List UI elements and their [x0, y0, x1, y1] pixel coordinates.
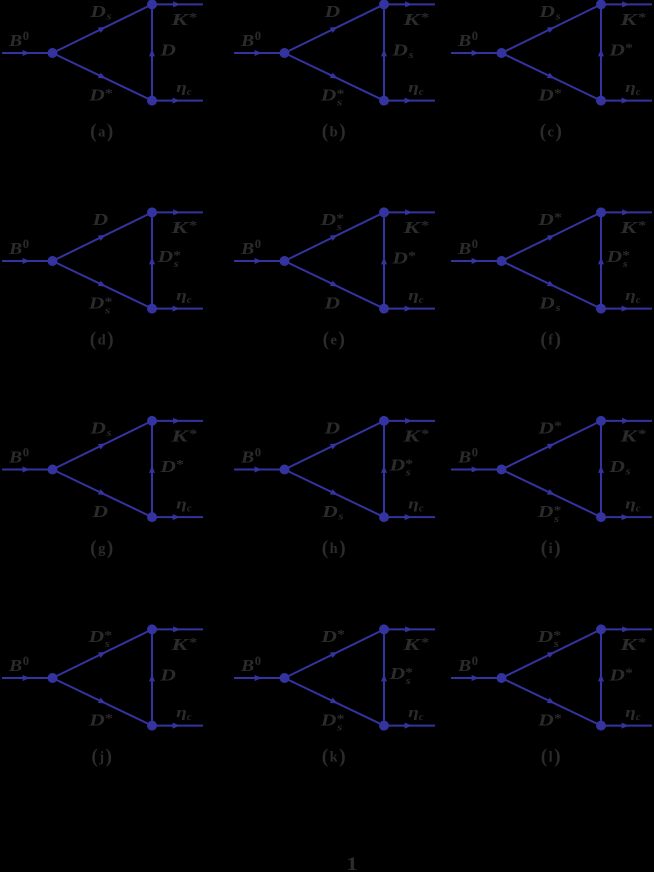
svg-text:s: s: [553, 514, 559, 525]
outgoing K* line (l): [601, 628, 652, 630]
svg-text:*: *: [176, 458, 184, 472]
left vertex (a): [48, 48, 58, 58]
top vertex (j): [147, 624, 157, 634]
top vertex (b): [379, 0, 389, 9]
top vertex (f): [596, 207, 606, 217]
incoming B0 line (a): [2, 52, 53, 54]
svg-text:D: D: [388, 664, 405, 683]
svg-text:K: K: [170, 218, 190, 237]
top vertex (l): [596, 624, 606, 634]
arrow on outgoing K* line (l): [622, 626, 629, 632]
svg-text:*: *: [638, 636, 646, 650]
svg-text:B: B: [240, 31, 254, 50]
arrow on right internal line (k): [381, 674, 387, 681]
svg-text:D: D: [319, 210, 336, 229]
svg-text:c: c: [636, 87, 641, 98]
svg-text:D: D: [320, 627, 337, 646]
svg-text:s: s: [624, 467, 630, 478]
arrow on outgoing K* line (k): [405, 626, 412, 632]
bottom vertex (j): [147, 721, 157, 731]
svg-text:*: *: [554, 86, 562, 100]
bottom vertex (g): [147, 512, 157, 522]
arrow on bottom internal line (g): [98, 489, 106, 495]
top internal line D* (i): [502, 421, 602, 470]
svg-text:0: 0: [472, 29, 478, 43]
diagram (d): [2, 207, 203, 350]
svg-text:(g): (g): [90, 538, 113, 559]
svg-text:η: η: [176, 705, 187, 721]
svg-text:B: B: [457, 31, 471, 50]
svg-text:s: s: [622, 259, 628, 270]
svg-text:η: η: [625, 288, 636, 304]
svg-text:c: c: [187, 712, 192, 723]
svg-text:D: D: [537, 502, 554, 521]
svg-text:c: c: [636, 295, 641, 306]
diagram (k): [234, 624, 435, 767]
svg-text:D: D: [91, 210, 108, 229]
svg-text:0: 0: [472, 654, 478, 668]
svg-text:η: η: [176, 80, 187, 96]
arrow on outgoing eta_c line (b): [405, 98, 412, 104]
svg-text:B: B: [240, 656, 254, 675]
outgoing eta_c line (g): [152, 516, 203, 518]
svg-text:D: D: [391, 248, 408, 267]
svg-text:(h): (h): [322, 538, 346, 559]
arrow on right internal line (g): [149, 466, 155, 473]
left vertex (d): [48, 256, 58, 266]
svg-text:D: D: [91, 502, 108, 521]
svg-text:(i): (i): [541, 538, 561, 559]
arrow on bottom internal line (e): [330, 281, 338, 287]
outgoing eta_c line (e): [384, 308, 435, 310]
incoming B0 line (d): [2, 260, 53, 262]
svg-text:D: D: [159, 666, 176, 685]
bottom internal line D* (l): [502, 678, 602, 726]
incoming B0 line (j): [2, 677, 53, 679]
top internal line D_s (g): [53, 421, 153, 470]
arrow on right internal line (b): [381, 49, 387, 56]
incoming B0 line (i): [451, 469, 502, 471]
outgoing eta_c line (b): [384, 100, 435, 102]
arrow on right internal line (d): [149, 257, 155, 264]
svg-text:D: D: [89, 419, 106, 438]
svg-text:*: *: [421, 427, 429, 441]
svg-text:K: K: [402, 427, 422, 446]
bottom vertex (e): [379, 304, 389, 314]
outgoing K* line (b): [384, 3, 435, 5]
arrow on right internal line (a): [149, 49, 155, 56]
arrow on bottom internal line (l): [547, 698, 555, 704]
svg-text:D: D: [321, 502, 338, 521]
svg-text:0: 0: [255, 29, 261, 43]
arrow on right internal line (j): [149, 674, 155, 681]
arrow on outgoing K* line (d): [173, 209, 180, 215]
arrow on outgoing K* line (f): [622, 209, 629, 215]
svg-text:0: 0: [255, 446, 261, 460]
svg-text:η: η: [408, 80, 419, 96]
arrow on bottom internal line (f): [547, 281, 555, 287]
arrow on incoming B0 line (e): [255, 258, 262, 264]
svg-text:D: D: [537, 419, 554, 438]
svg-text:K: K: [619, 218, 639, 237]
svg-text:*: *: [554, 711, 562, 725]
bottom vertex (f): [596, 304, 606, 314]
svg-text:s: s: [336, 723, 342, 734]
diagram (c): [451, 0, 652, 143]
svg-text:0: 0: [255, 237, 261, 251]
right internal line D_s* (k): [383, 629, 385, 725]
svg-text:η: η: [625, 80, 636, 96]
bottom vertex (b): [379, 96, 389, 106]
svg-text:(f): (f): [540, 330, 561, 351]
svg-text:*: *: [554, 211, 562, 225]
svg-text:*: *: [189, 219, 197, 233]
svg-text:K: K: [170, 635, 190, 654]
svg-text:D: D: [605, 247, 622, 266]
outgoing eta_c line (a): [152, 100, 203, 102]
arrow on incoming B0 line (i): [472, 467, 479, 473]
bottom internal line D (e): [285, 261, 385, 309]
svg-text:(j): (j): [91, 747, 112, 768]
left vertex (l): [497, 673, 507, 683]
arrow on top internal line (i): [547, 443, 555, 449]
svg-text:*: *: [638, 219, 646, 233]
arrow on bottom internal line (b): [330, 73, 338, 79]
svg-text:D: D: [320, 711, 337, 730]
arrow on outgoing eta_c line (d): [173, 306, 180, 312]
bottom internal line D* (a): [53, 53, 153, 101]
svg-text:K: K: [619, 635, 639, 654]
incoming B0 line (g): [2, 469, 53, 471]
svg-text:B: B: [240, 239, 254, 258]
bottom internal line D_s (h): [285, 470, 385, 518]
svg-text:s: s: [336, 222, 342, 233]
top vertex (i): [596, 416, 606, 426]
arrow on incoming B0 line (b): [255, 50, 262, 56]
left vertex (c): [497, 48, 507, 58]
right internal line D* (g): [151, 421, 153, 517]
diagram (h): [234, 416, 435, 559]
svg-text:D: D: [538, 2, 555, 21]
arrow on right internal line (e): [381, 257, 387, 264]
outgoing K* line (e): [384, 211, 435, 213]
svg-text:η: η: [408, 288, 419, 304]
right internal line D_s (b): [383, 4, 385, 100]
svg-text:D: D: [538, 294, 555, 313]
top internal line D (d): [53, 212, 153, 261]
incoming B0 line (l): [451, 677, 502, 679]
svg-text:*: *: [638, 427, 646, 441]
svg-text:*: *: [638, 11, 646, 25]
arrow on outgoing K* line (i): [622, 418, 629, 424]
svg-text:*: *: [189, 11, 197, 25]
outgoing eta_c line (d): [152, 308, 203, 310]
outgoing K* line (a): [152, 3, 203, 5]
arrow on right internal line (i): [598, 466, 604, 473]
top vertex (h): [379, 416, 389, 426]
right internal line D_s* (f): [600, 212, 602, 308]
arrow on outgoing K* line (a): [173, 1, 180, 7]
arrow on incoming B0 line (j): [23, 675, 30, 681]
svg-text:D: D: [159, 41, 176, 60]
svg-text:c: c: [636, 712, 641, 723]
arrow on outgoing eta_c line (l): [622, 723, 629, 729]
svg-text:0: 0: [23, 237, 29, 251]
arrow on outgoing eta_c line (c): [622, 98, 629, 104]
svg-text:s: s: [553, 639, 559, 650]
svg-text:(e): (e): [323, 330, 345, 351]
svg-text:B: B: [8, 656, 22, 675]
svg-text:D: D: [88, 294, 105, 313]
svg-text:D: D: [608, 457, 625, 476]
svg-text:K: K: [619, 10, 639, 29]
arrow on top internal line (a): [98, 27, 106, 33]
svg-text:D: D: [608, 665, 625, 684]
outgoing K* line (j): [152, 628, 203, 630]
arrow on bottom internal line (k): [330, 698, 338, 704]
svg-text:D: D: [323, 294, 340, 313]
arrow on right internal line (h): [381, 466, 387, 473]
outgoing K* line (g): [152, 420, 203, 422]
diagram (j): [2, 624, 203, 767]
bottom internal line D_s* (k): [285, 678, 385, 726]
incoming B0 line (f): [451, 260, 502, 262]
svg-text:(b): (b): [322, 122, 346, 143]
arrow on outgoing K* line (b): [405, 1, 412, 7]
svg-text:s: s: [105, 12, 111, 23]
right internal line D (j): [151, 629, 153, 725]
arrow on top internal line (f): [547, 235, 555, 241]
arrow on bottom internal line (j): [98, 698, 106, 704]
svg-text:c: c: [419, 87, 424, 98]
svg-text:s: s: [405, 468, 411, 479]
left vertex (e): [280, 256, 290, 266]
left vertex (k): [280, 673, 290, 683]
svg-text:D: D: [320, 86, 337, 105]
outgoing K* line (h): [384, 420, 435, 422]
arrow on outgoing eta_c line (g): [173, 514, 180, 520]
arrow on right internal line (f): [598, 257, 604, 264]
right internal line D_s* (d): [151, 212, 153, 308]
svg-text:0: 0: [23, 446, 29, 460]
svg-text:c: c: [187, 87, 192, 98]
svg-text:*: *: [421, 636, 429, 650]
left vertex (b): [280, 48, 290, 58]
outgoing eta_c line (f): [601, 308, 652, 310]
top vertex (d): [147, 207, 157, 217]
svg-text:D: D: [323, 2, 340, 21]
svg-text:B: B: [8, 448, 22, 467]
top internal line D_s* (e): [285, 212, 385, 261]
svg-text:B: B: [457, 656, 471, 675]
svg-text:D: D: [536, 627, 553, 646]
outgoing eta_c line (l): [601, 725, 652, 727]
svg-text:η: η: [176, 497, 187, 513]
left vertex (h): [280, 465, 290, 475]
arrow on incoming B0 line (d): [23, 258, 30, 264]
bottom internal line D_s* (i): [502, 470, 602, 518]
svg-text:D: D: [159, 457, 176, 476]
top internal line D_s (a): [53, 4, 153, 53]
svg-text:0: 0: [23, 654, 29, 668]
svg-text:(k): (k): [322, 747, 346, 768]
bottom internal line D (g): [53, 470, 153, 518]
svg-text:s: s: [554, 303, 560, 314]
svg-text:K: K: [170, 427, 190, 446]
svg-text:D: D: [156, 247, 173, 266]
diagram (g): [2, 416, 203, 559]
svg-text:*: *: [625, 666, 633, 680]
outgoing K* line (c): [601, 3, 652, 5]
svg-text:B: B: [8, 239, 22, 258]
arrow on top internal line (d): [98, 235, 106, 241]
svg-text:D: D: [388, 456, 405, 475]
diagram (e): [234, 207, 435, 350]
bottom internal line D* (c): [502, 53, 602, 101]
left vertex (j): [48, 673, 58, 683]
svg-text:c: c: [419, 712, 424, 723]
arrow on bottom internal line (d): [98, 281, 106, 287]
svg-text:(l): (l): [541, 747, 561, 768]
svg-text:η: η: [176, 288, 187, 304]
right internal line D* (c): [600, 4, 602, 100]
left vertex (g): [48, 465, 58, 475]
svg-text:D: D: [537, 711, 554, 730]
svg-text:D: D: [323, 419, 340, 438]
top internal line D* (f): [502, 212, 602, 261]
outgoing K* line (f): [601, 211, 652, 213]
top internal line D_s* (l): [502, 629, 602, 678]
diagram (b): [234, 0, 435, 143]
arrow on incoming B0 line (f): [472, 258, 479, 264]
top internal line D (b): [285, 4, 385, 53]
svg-text:B: B: [457, 448, 471, 467]
arrow on top internal line (c): [547, 27, 555, 33]
top internal line D_s (c): [502, 4, 602, 53]
diagram (l): [451, 624, 652, 767]
svg-text:K: K: [402, 218, 422, 237]
svg-text:c: c: [636, 503, 641, 514]
bottom vertex (c): [596, 96, 606, 106]
arrow on incoming B0 line (g): [23, 467, 30, 473]
svg-text:1: 1: [346, 854, 358, 872]
top internal line D* (k): [285, 629, 385, 678]
arrow on top internal line (k): [330, 652, 338, 658]
arrow on bottom internal line (c): [547, 73, 555, 79]
svg-text:D: D: [88, 711, 105, 730]
arrow on outgoing eta_c line (k): [405, 723, 412, 729]
arrow on outgoing eta_c line (e): [405, 306, 412, 312]
svg-text:s: s: [405, 676, 411, 687]
arrow on bottom internal line (h): [330, 489, 338, 495]
arrow on outgoing K* line (c): [622, 1, 629, 7]
incoming B0 line (k): [234, 677, 285, 679]
top vertex (e): [379, 207, 389, 217]
outgoing K* line (k): [384, 628, 435, 630]
top internal line D (h): [285, 421, 385, 470]
svg-text:0: 0: [23, 29, 29, 43]
bottom vertex (i): [596, 512, 606, 522]
arrow on right internal line (l): [598, 674, 604, 681]
svg-text:s: s: [104, 306, 110, 317]
svg-text:*: *: [105, 86, 113, 100]
svg-text:s: s: [407, 50, 413, 61]
arrow on incoming B0 line (l): [472, 675, 479, 681]
arrow on outgoing K* line (e): [405, 209, 412, 215]
outgoing eta_c line (i): [601, 516, 652, 518]
arrow on top internal line (g): [98, 443, 106, 449]
svg-text:*: *: [337, 628, 345, 642]
svg-text:*: *: [421, 219, 429, 233]
svg-text:*: *: [189, 636, 197, 650]
svg-text:s: s: [105, 428, 111, 439]
svg-text:D: D: [537, 210, 554, 229]
bottom internal line D_s (f): [502, 261, 602, 309]
svg-text:c: c: [187, 295, 192, 306]
outgoing eta_c line (k): [384, 725, 435, 727]
bottom internal line D_s* (b): [285, 53, 385, 101]
top vertex (c): [596, 0, 606, 9]
svg-text:K: K: [170, 10, 190, 29]
diagram (a): [2, 0, 203, 143]
top vertex (g): [147, 416, 157, 426]
top internal line D_s* (j): [53, 629, 153, 678]
bottom vertex (a): [147, 96, 157, 106]
arrow on bottom internal line (a): [98, 73, 106, 79]
svg-text:*: *: [625, 41, 633, 55]
svg-text:D: D: [608, 40, 625, 59]
svg-text:0: 0: [255, 654, 261, 668]
svg-text:η: η: [625, 705, 636, 721]
svg-text:η: η: [408, 497, 419, 513]
right internal line D* (l): [600, 629, 602, 725]
incoming B0 line (h): [234, 469, 285, 471]
svg-text:(a): (a): [90, 122, 113, 143]
svg-text:D: D: [537, 86, 554, 105]
incoming B0 line (e): [234, 260, 285, 262]
arrow on outgoing K* line (g): [173, 418, 180, 424]
svg-text:B: B: [457, 239, 471, 258]
arrow on top internal line (h): [330, 443, 338, 449]
svg-text:D: D: [87, 627, 104, 646]
svg-text:η: η: [408, 705, 419, 721]
arrow on top internal line (l): [547, 652, 555, 658]
svg-text:B: B: [8, 31, 22, 50]
svg-text:s: s: [337, 512, 343, 523]
svg-text:c: c: [419, 503, 424, 514]
svg-text:*: *: [554, 419, 562, 433]
bottom vertex (l): [596, 721, 606, 731]
svg-text:(d): (d): [90, 330, 114, 351]
right internal line D* (e): [383, 212, 385, 308]
top vertex (k): [379, 624, 389, 634]
arrow on outgoing eta_c line (i): [622, 514, 629, 520]
right internal line D_s (i): [600, 421, 602, 517]
outgoing eta_c line (j): [152, 725, 203, 727]
right internal line D_s* (h): [383, 421, 385, 517]
svg-text:0: 0: [472, 446, 478, 460]
svg-text:*: *: [189, 427, 197, 441]
top vertex (a): [147, 0, 157, 9]
arrow on outgoing eta_c line (h): [405, 514, 412, 520]
svg-text:B: B: [240, 448, 254, 467]
left vertex (f): [497, 256, 507, 266]
svg-text:s: s: [173, 259, 179, 270]
svg-text:*: *: [105, 711, 113, 725]
arrow on top internal line (b): [330, 27, 338, 33]
svg-text:*: *: [421, 11, 429, 25]
left vertex (i): [497, 465, 507, 475]
